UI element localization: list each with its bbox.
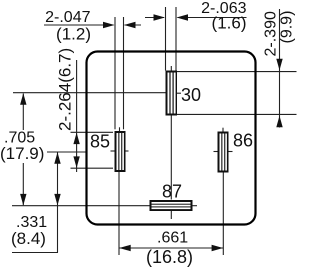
svg-text:30: 30 xyxy=(181,85,201,105)
svg-text:2-.047: 2-.047 xyxy=(45,9,90,26)
svg-text:(1.2): (1.2) xyxy=(56,25,91,44)
svg-text:2-.264(6.7): 2-.264(6.7) xyxy=(56,48,75,131)
svg-text:2-.390: 2-.390 xyxy=(263,11,280,56)
svg-text:85: 85 xyxy=(90,132,110,152)
svg-text:.661: .661 xyxy=(157,230,188,247)
svg-text:(16.8): (16.8) xyxy=(146,247,193,267)
svg-text:(1.6): (1.6) xyxy=(212,14,247,33)
svg-text:(17.9): (17.9) xyxy=(0,144,44,163)
svg-text:(8.4): (8.4) xyxy=(11,229,46,248)
svg-text:86: 86 xyxy=(233,131,253,151)
svg-text:87: 87 xyxy=(162,182,182,202)
svg-text:(9.9): (9.9) xyxy=(279,11,296,44)
